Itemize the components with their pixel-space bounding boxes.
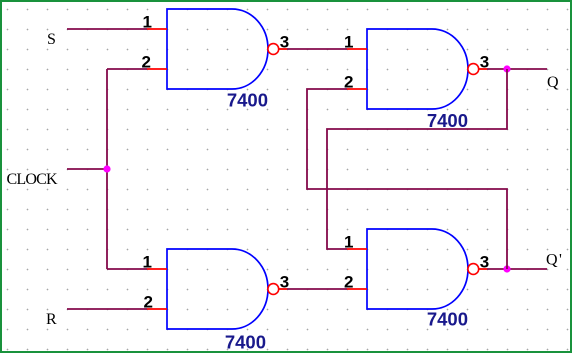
wire R net horizontal	[67, 308, 147, 310]
node Q' junction	[503, 265, 510, 272]
NAND gate U4 output bubble	[468, 264, 479, 275]
wire Q net horizontal	[487, 68, 547, 70]
svg-text:1: 1	[143, 253, 152, 272]
wire CLOCK to U3 pin 1	[107, 268, 147, 270]
U4 pin 1 stub	[347, 248, 367, 250]
svg-text:CLOCK: CLOCK	[7, 171, 58, 188]
NAND gate U1 (top-left) body	[167, 9, 268, 89]
NAND gate U4 (bottom-right) body	[367, 229, 468, 309]
NAND gate U1 output bubble	[268, 44, 279, 55]
node CLOCK junction	[103, 165, 110, 172]
U3 pin 3 output stub	[279, 288, 288, 290]
wire S net horizontal	[67, 28, 147, 30]
svg-text:1: 1	[143, 13, 152, 32]
wire CLOCK net horizontal	[67, 168, 107, 170]
svg-text:7400: 7400	[427, 110, 468, 131]
svg-text:1: 1	[344, 33, 353, 52]
NAND gate U3 output bubble	[268, 284, 279, 295]
wire U3 out to U4 pin 2	[287, 288, 347, 290]
svg-text:R: R	[46, 311, 57, 328]
wire CLOCK to U1 pin 2	[107, 68, 147, 70]
svg-text:2: 2	[144, 293, 153, 312]
svg-text:Q': Q'	[546, 252, 563, 269]
U2 pin 1 stub	[347, 48, 367, 50]
svg-text:S: S	[47, 31, 56, 48]
wire Q feedback: down, left, down to U4 pin 1	[327, 69, 507, 249]
svg-text:2: 2	[344, 273, 353, 292]
svg-text:2: 2	[344, 73, 353, 92]
svg-text:Q: Q	[547, 74, 559, 91]
NAND gate U3 (bottom-left) body	[167, 249, 268, 329]
U4 pin 2 stub	[347, 288, 367, 290]
svg-text:7400: 7400	[427, 309, 468, 330]
node Q junction	[503, 65, 510, 72]
wire U1 out to U2 pin 1	[287, 48, 347, 50]
wire Q' feedback: up, left, up to U2 pin 2	[307, 89, 507, 269]
svg-text:1: 1	[344, 233, 353, 252]
U3 pin 1 stub	[147, 268, 167, 270]
wire CLOCK vertical trunk	[106, 69, 108, 269]
U4 pin 3 output stub	[479, 268, 488, 270]
wire Q' net horizontal	[487, 268, 547, 270]
U1 pin 3 output stub	[279, 48, 288, 50]
U1 pin 2 stub	[147, 68, 167, 70]
NAND gate U2 output bubble	[468, 64, 479, 75]
NAND gate U2 (top-right) body	[367, 29, 468, 109]
svg-text:2: 2	[142, 53, 151, 72]
U3 pin 2 stub	[147, 308, 167, 310]
U2 pin 2 stub	[347, 88, 367, 90]
U2 pin 3 output stub	[479, 68, 488, 70]
svg-text:7400: 7400	[227, 90, 268, 111]
svg-text:7400: 7400	[225, 332, 266, 353]
U1 pin 1 stub	[147, 28, 167, 30]
